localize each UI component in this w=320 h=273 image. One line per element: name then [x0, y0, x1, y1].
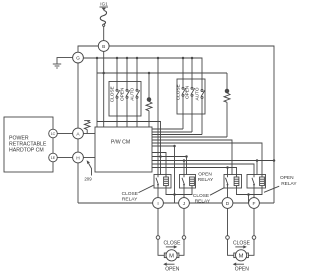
leader K4 label — [264, 186, 279, 192]
label CLOSE (M1 direction) — [164, 241, 182, 247]
wire K4 switch to node F — [253, 188, 255, 198]
SW1 OPEN switch — [126, 58, 130, 127]
wire node B to node G — [78, 46, 98, 52]
motor M2 — [234, 250, 249, 261]
svg-text:AUTO: AUTO — [130, 87, 135, 100]
svg-text:CLOSE: CLOSE — [110, 86, 115, 102]
node J — [179, 198, 190, 209]
module P/W CM — [95, 127, 152, 172]
wire CM pin to relay K2 mid — [152, 157, 187, 175]
junction x174.5 y194.5 — [173, 193, 176, 196]
bulb L2 with resistor (switch illumination, right) — [224, 73, 230, 137]
module: POWER RETRACTABLE HARDTOP CM — [4, 117, 53, 172]
relay K2 (OPEN relay, left motor) — [180, 175, 196, 189]
junction bus2 x149 — [148, 72, 151, 75]
wire node D to motor M2 — [228, 208, 234, 255]
wire bus2 left end to relay power (over CM) — [97, 122, 161, 175]
svg-text:1E: 1E — [51, 156, 56, 160]
wire CM pin to bulb L2 — [152, 136, 227, 138]
SW2 AUTO label — [195, 87, 200, 100]
svg-text:1C: 1C — [51, 132, 56, 136]
junction bus2 x103.7 — [102, 72, 105, 75]
label CLOSE RELAY K1 — [122, 191, 138, 203]
node F — [249, 198, 260, 209]
wire coil return drop right — [248, 195, 250, 204]
ground — [53, 64, 61, 68]
label CLOSE RELAY K3 — [193, 193, 211, 204]
svg-text:OPEN: OPEN — [235, 267, 250, 273]
svg-text:CLOSE: CLOSE — [164, 241, 182, 247]
wire drop to relay K4 mid — [256, 161, 258, 175]
junction bus1 x183 — [182, 57, 185, 60]
junction bus1 x192 — [191, 57, 194, 60]
node D — [222, 198, 233, 209]
junction bus1 x158 — [157, 57, 160, 60]
callout arrow 209 — [87, 160, 92, 175]
connector 1C — [49, 129, 58, 138]
wire node J to motor M1 — [179, 208, 184, 255]
junction bus1 x117 — [116, 57, 119, 60]
wire bottom bus — [78, 202, 274, 204]
svg-text:CLOSE: CLOSE — [233, 241, 251, 247]
wire node F to motor M2 — [248, 208, 254, 255]
svg-text:H: H — [76, 155, 80, 161]
wire bus2 (power feed bus) — [97, 72, 227, 74]
label OPEN (M1 direction) — [165, 267, 180, 273]
SW2 CLOSE switch — [182, 58, 186, 129]
svg-text:OPEN: OPEN — [198, 171, 212, 177]
svg-text:AUTO: AUTO — [195, 87, 200, 100]
wire drop to relay K2 switch — [183, 161, 185, 175]
wire left rail G to bottom bus (through A and H) — [77, 63, 79, 203]
svg-text:M: M — [169, 253, 174, 259]
svg-text:IG1: IG1 — [100, 2, 108, 7]
SW2 OPEN switch — [191, 58, 195, 132]
arrow left (M2 open) — [233, 263, 244, 266]
junction bus1 x127 — [126, 57, 129, 60]
junction x274 y160.5 — [273, 159, 276, 162]
label CLOSE (M2 direction) — [233, 241, 251, 247]
wire bus1 (switch common bus from G) — [83, 58, 202, 90]
SW2 AUTO switch — [201, 90, 205, 135]
wire CM pin to relay K4 switch — [152, 164, 254, 175]
connector 1E — [49, 153, 58, 162]
svg-text:OPEN: OPEN — [165, 267, 180, 273]
svg-text:P/W CM: P/W CM — [111, 140, 130, 146]
wire CM pin to relay K3 switch and coil — [152, 168, 237, 178]
connector on F wire — [252, 236, 256, 240]
wire drop to relay K3 switch — [227, 168, 229, 175]
leader K3 label — [210, 188, 224, 196]
net IG1 label — [100, 2, 108, 7]
arrow right (M2 close) — [235, 245, 247, 248]
wire node A to P/W CM — [83, 133, 95, 135]
wire node I to motor M1 — [158, 208, 164, 255]
junction x184 y160.5 — [183, 159, 186, 162]
wire K1 switch to node I — [157, 188, 159, 198]
wire bus1 drop to relay K1 switch — [157, 58, 159, 175]
svg-text:G: G — [76, 56, 80, 62]
relay K1 (CLOSE relay, left motor) — [154, 175, 171, 189]
node H — [73, 152, 84, 163]
relay K3 (CLOSE relay, right motor) — [224, 175, 242, 189]
label OPEN RELAY K2 — [198, 171, 214, 183]
wire K3 switch to node D — [227, 188, 229, 198]
wire CM pin to relay K1 coil — [152, 153, 166, 178]
SW1 CLOSE switch — [116, 58, 120, 127]
switch box SW1 (roof switch, driver) — [109, 82, 141, 117]
wire CM pin to relay K2 switch and power rail — [152, 160, 274, 162]
svg-text:RELAY: RELAY — [122, 197, 138, 203]
svg-text:F: F — [253, 201, 256, 207]
connector on I wire — [156, 236, 160, 240]
wire node H to P/W CM — [83, 157, 95, 159]
junction x160.5 y156.5 — [159, 155, 162, 158]
wire K2 switch to node J — [183, 188, 185, 198]
SW2 CLOSE label — [176, 84, 181, 100]
connector on J wire — [182, 236, 186, 240]
node I — [153, 198, 164, 209]
wire node G to ground — [57, 58, 73, 64]
wire CM pin to SW2 OPEN — [152, 131, 192, 133]
relay K4 (OPEN relay, right motor) — [247, 175, 266, 189]
svg-text:HARDTOP CM: HARDTOP CM — [9, 148, 44, 154]
wire 1C to node A — [57, 133, 72, 135]
svg-text:RELAY: RELAY — [195, 198, 211, 204]
wire K2 coil return — [175, 188, 193, 195]
svg-text:CLOSE: CLOSE — [122, 191, 138, 197]
svg-text:209: 209 — [84, 177, 92, 182]
SW2 OPEN label — [185, 86, 190, 99]
node G — [73, 52, 84, 63]
arrow right (M1 close) — [166, 245, 178, 248]
svg-text:I: I — [157, 201, 158, 207]
wire node B to right power rail — [109, 46, 274, 203]
SW1 OPEN label — [120, 88, 125, 101]
connector on D wire — [226, 236, 230, 240]
svg-text:RELAY: RELAY — [198, 177, 214, 183]
wire CM pin to relay K4 coil — [152, 143, 262, 177]
label OPEN RELAY K4 — [280, 175, 297, 187]
junction x227.5 y167.5 — [226, 166, 229, 169]
wire CM pin to SW2 CLOSE — [152, 128, 183, 130]
svg-text:OPEN: OPEN — [185, 86, 190, 99]
wire node B drop to P/W CM (through bus2) — [103, 51, 105, 127]
svg-text:OPEN: OPEN — [280, 175, 294, 181]
SW1 AUTO label — [130, 87, 135, 100]
label 209 — [84, 177, 92, 182]
wire fuse to node B — [103, 26, 105, 40]
wire coil return drop to bottom bus — [174, 146, 176, 203]
wire CM pin to relay K3 mid — [152, 140, 232, 175]
bulb L1 with resistor (switch illumination, left) — [146, 73, 152, 127]
wire K1 coil return — [166, 188, 175, 195]
leader K1 label — [139, 185, 154, 192]
svg-text:OPEN: OPEN — [120, 88, 125, 101]
SW1 CLOSE label — [110, 86, 115, 102]
wire 1E to node H — [57, 157, 72, 159]
junction x174.5 y146 — [173, 145, 176, 148]
fuse IG1 (fusible link from IG1) — [100, 7, 109, 26]
svg-text:RELAY: RELAY — [281, 181, 297, 187]
junction x248.5 y194.5 — [247, 193, 250, 196]
wire bus1 drop to P/W CM pin x97 — [96, 58, 98, 127]
switch box SW2 (roof switch, passenger) — [177, 79, 205, 114]
node A — [73, 128, 84, 139]
svg-text:B: B — [102, 44, 105, 50]
svg-text:D: D — [226, 201, 230, 207]
wire CM pin to SW2 AUTO — [152, 134, 202, 136]
svg-text:M: M — [239, 253, 244, 259]
junction x257 y160.5 — [256, 159, 259, 162]
junction bus1 x137 — [136, 57, 139, 60]
motor M1 — [164, 250, 179, 261]
wire K4 coil return — [249, 188, 263, 195]
resistor on node A wire (to terminal) — [84, 121, 90, 134]
arrow left (M1 open) — [163, 263, 174, 266]
wire K3 coil return — [237, 188, 249, 195]
svg-text:CLOSE: CLOSE — [193, 193, 209, 199]
node B — [98, 41, 109, 52]
SW1 AUTO switch — [136, 58, 140, 127]
wire CM pin to coil return rail — [152, 145, 175, 147]
junction bus1 x97 — [96, 57, 99, 60]
label OPEN (M2 direction) — [235, 267, 250, 273]
junction x186.5 y156.5 — [185, 155, 188, 158]
svg-text:CLOSE: CLOSE — [176, 84, 181, 100]
